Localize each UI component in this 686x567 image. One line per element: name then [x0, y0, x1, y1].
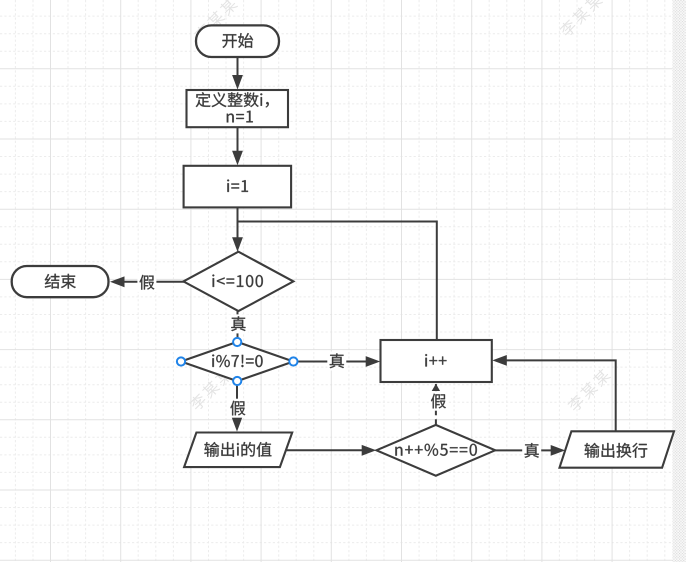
wire: diamond i<=100 to 结束 (假 branch) [124, 281, 184, 283]
watermark top-right [558, 0, 604, 38]
decision diamond n++%5==0 [376, 425, 495, 476]
connection handle right of i%7!=0 [289, 357, 297, 365]
wire: diamond i%7 down to 输出i的值 (假 branch) [236, 381, 238, 418]
wire: diamond n++%5==0 to 输出换行 (真 branch) [495, 449, 552, 451]
watermark top-left [193, 0, 239, 42]
label 真 below i<=100 [229, 314, 248, 333]
label 假 on dashed edge [429, 392, 448, 411]
small arrowhead into i++ bottom [432, 384, 440, 391]
arrowhead into i++ left [366, 356, 381, 367]
terminator 结束 [12, 266, 109, 297]
process box 定义整数i, n=1 [187, 90, 289, 127]
wire: 输出i的值 to diamond n++%5==0 [286, 449, 363, 451]
watermark middle-right [566, 367, 612, 413]
label 假 below i%7!=0 [228, 399, 247, 418]
dashed wire: diamond n++%5==0 up to i++ (假 branch) [435, 384, 437, 425]
arrowhead into i++ right [492, 355, 507, 366]
process box i++ [381, 340, 492, 382]
process box i=1 [184, 166, 292, 208]
connection handle bottom of i%7!=0 [233, 377, 241, 385]
wire: 输出换行 top loop to i++ right [506, 360, 616, 431]
wire: diamond i<=100 to diamond i%7 (真 branch) [237, 311, 239, 342]
decision diamond i%7!=0 [181, 342, 293, 381]
label 假 on edge to 结束 [137, 273, 156, 292]
arrowhead into i=1 [232, 151, 243, 166]
watermark middle-left [188, 366, 234, 412]
label 真 to 输出换行 [522, 441, 541, 460]
decision diamond i<=100 [183, 252, 293, 311]
connection handle top of i%7!=0 [233, 338, 241, 346]
arrowhead into 结束 [110, 276, 125, 287]
wire: 开始 to 定义 box [237, 57, 239, 78]
wire: i=1 to diamond i<=100 (with loop-back junction) [237, 207, 239, 238]
arrowhead into diamond n++%5==0 [362, 445, 377, 456]
io parallelogram 输出换行 [560, 431, 675, 467]
terminator 开始 [196, 25, 279, 57]
io parallelogram 输出i的值 [184, 433, 292, 468]
arrowhead into 输出换行 [551, 445, 566, 456]
label 真 to i++ [327, 352, 346, 371]
right page-edge stipple band [673, 0, 686, 562]
connection handle left of i%7!=0 [177, 357, 185, 365]
arrowhead into 输出i的值 [232, 417, 243, 432]
arrowhead into diamond i<=100 [232, 237, 243, 252]
wire: diamond i%7 to i++ (真 branch) [293, 361, 367, 363]
wire: loop back from i++ top [238, 222, 437, 341]
arrowhead into 定义 box [232, 75, 243, 90]
wire: 定义 box to i=1 [237, 127, 239, 152]
